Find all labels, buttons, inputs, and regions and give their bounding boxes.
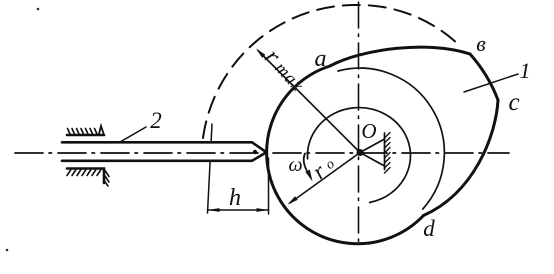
vertical centerline xyxy=(358,2,360,245)
h extension line left xyxy=(208,124,213,213)
horizontal centerline xyxy=(15,152,509,154)
base circle thin arc (right side) xyxy=(338,68,444,209)
svg-text:ω: ω xyxy=(288,154,302,176)
center dot O xyxy=(357,149,364,156)
label 2 leader xyxy=(120,127,146,142)
cam profile: base circle arc d->a xyxy=(267,66,424,244)
label r_max xyxy=(259,44,311,98)
svg-text:в: в xyxy=(476,31,486,56)
cam profile: rise a->b xyxy=(330,47,470,66)
inner hub circle xyxy=(307,108,410,203)
r0 radius arrow xyxy=(290,153,360,204)
paper specks xyxy=(37,8,40,11)
svg-text:max: max xyxy=(271,58,308,96)
pivot support at O xyxy=(360,139,385,166)
r_max dashed circle xyxy=(203,5,459,138)
svg-text:d: d xyxy=(423,216,435,241)
svg-text:O: O xyxy=(361,119,376,143)
omega rotation arrow xyxy=(304,154,307,171)
svg-text:c: c xyxy=(508,89,519,116)
cam profile: return c->d xyxy=(424,100,499,216)
upper guide xyxy=(67,134,104,137)
label r0 xyxy=(308,151,340,184)
r_max radius arrow xyxy=(258,51,360,153)
follower rod 2 xyxy=(62,142,267,161)
svg-text:2: 2 xyxy=(150,108,162,133)
svg-text:h: h xyxy=(229,185,241,211)
label 1 leader xyxy=(464,74,518,92)
dimension line h xyxy=(208,209,269,211)
svg-text:1: 1 xyxy=(520,58,531,83)
cam profile: dwell b->c xyxy=(470,54,498,100)
rod tip dot xyxy=(253,150,257,154)
lower guide xyxy=(67,169,104,184)
h extension line right xyxy=(268,158,270,214)
svg-text:a: a xyxy=(315,46,327,72)
